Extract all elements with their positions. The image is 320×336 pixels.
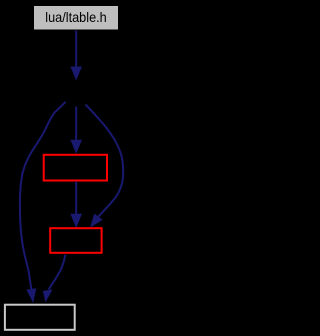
svg-text:lua/ltable.h: lua/ltable.h [45, 9, 107, 25]
